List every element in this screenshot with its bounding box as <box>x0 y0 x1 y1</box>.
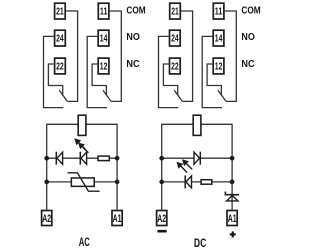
junction AC left varistor node <box>44 180 49 185</box>
resistor R (AC LED series) <box>98 156 109 161</box>
switch arm (changeover contact) <box>59 90 67 101</box>
AC varistor branch wire <box>47 181 117 183</box>
svg-text:11: 11 <box>100 6 108 18</box>
svg-text:21: 21 <box>56 6 64 18</box>
resistor R (DC LED series) <box>201 180 212 185</box>
terminal box A2 <box>42 211 52 226</box>
terminal box 12 <box>98 58 109 74</box>
switch arm (changeover contact) <box>218 90 226 101</box>
svg-text:AC: AC <box>79 235 90 249</box>
AC circuit top wire <box>47 123 117 125</box>
svg-text:12: 12 <box>215 60 223 72</box>
junction AC right LED-branch node <box>115 156 120 161</box>
wire from terminal 21 to switch common <box>66 11 78 101</box>
terminal box 12 <box>213 58 224 74</box>
AC circuit left rail <box>46 124 48 210</box>
protection diode (AC) <box>56 152 62 165</box>
terminal box A1 <box>227 211 237 226</box>
terminal box 24 <box>170 30 181 46</box>
DC circuit left rail <box>161 124 163 210</box>
svg-text:DC: DC <box>194 236 207 250</box>
junction AC left LED-branch node <box>44 156 49 161</box>
svg-text:A2: A2 <box>42 213 51 225</box>
junction DC left LED-branch node <box>159 180 164 185</box>
terminal box 22 <box>55 58 66 74</box>
DC LED branch wire <box>162 181 232 183</box>
svg-text:NC: NC <box>126 59 140 70</box>
wire from terminal 22 (NC fixed contact) <box>48 64 62 95</box>
terminal box 14 <box>213 30 224 46</box>
terminal box 22 <box>170 58 181 74</box>
LED indicator diode (DC) <box>185 175 191 188</box>
polarity label minus <box>158 230 167 233</box>
wire from terminal 24 (NO fixed contact) <box>159 36 179 107</box>
junction DC left diode-branch node <box>159 156 164 161</box>
terminal box 24 <box>55 30 66 46</box>
svg-text:COM: COM <box>126 6 145 17</box>
svg-text:22: 22 <box>56 60 64 72</box>
svg-text:22: 22 <box>171 60 179 72</box>
svg-text:NO: NO <box>126 32 139 43</box>
polarity label plus <box>230 231 236 237</box>
LED arrow <box>182 159 192 169</box>
AC LED branch wire <box>47 157 117 159</box>
protection diode (DC) <box>194 152 200 165</box>
svg-text:14: 14 <box>100 33 108 45</box>
relay coil (DC) <box>193 115 201 135</box>
terminal box A2 <box>157 211 167 226</box>
LED arrow <box>176 162 187 173</box>
terminal box 21 <box>170 3 181 19</box>
svg-text:11: 11 <box>215 6 223 18</box>
terminal box 11 <box>98 3 109 19</box>
svg-text:24: 24 <box>171 33 179 45</box>
svg-text:14: 14 <box>215 33 223 45</box>
terminal box 21 <box>55 3 66 19</box>
terminal box 11 <box>213 3 224 19</box>
terminal box A1 <box>112 211 122 226</box>
wire from terminal 12 (NC fixed contact) <box>92 64 106 95</box>
wire from terminal 12 (NC fixed contact) <box>207 64 221 95</box>
varistor (AC surge suppressor) <box>68 173 100 191</box>
svg-text:A1: A1 <box>113 213 122 225</box>
zener diode (DC, on A1 rail) <box>225 192 239 201</box>
junction AC right varistor node <box>115 180 120 185</box>
LED indicator diode (AC) <box>80 152 86 165</box>
terminal box 14 <box>98 30 109 46</box>
wire from terminal 11 to switch common <box>225 11 237 101</box>
DC circuit right rail <box>231 124 233 210</box>
relay coil (AC) <box>78 115 86 135</box>
svg-text:A1: A1 <box>228 213 237 225</box>
wire from terminal 22 (NC fixed contact) <box>163 64 177 95</box>
DC circuit top wire <box>162 123 232 125</box>
svg-text:24: 24 <box>56 33 64 45</box>
switch arm (changeover contact) <box>174 90 182 101</box>
svg-text:12: 12 <box>100 60 108 72</box>
svg-text:COM: COM <box>241 6 260 17</box>
wire from terminal 14 (NO fixed contact) <box>87 36 107 107</box>
AC circuit right rail <box>116 124 118 210</box>
switch arm (changeover contact) <box>103 90 111 101</box>
svg-text:NO: NO <box>241 32 254 43</box>
svg-text:A2: A2 <box>157 213 166 225</box>
wire from terminal 11 to switch common <box>110 11 122 101</box>
wire from terminal 24 (NO fixed contact) <box>44 36 64 107</box>
junction DC right LED-branch node (zener tap) <box>230 180 235 185</box>
LED arrow <box>78 142 88 152</box>
svg-text:NC: NC <box>241 59 255 70</box>
wire from terminal 21 to switch common <box>181 11 193 101</box>
svg-text:21: 21 <box>171 6 179 18</box>
wire from terminal 14 (NO fixed contact) <box>202 36 222 107</box>
DC diode branch wire <box>162 157 232 159</box>
LED arrow <box>74 138 85 149</box>
junction DC right diode-branch node <box>230 156 235 161</box>
